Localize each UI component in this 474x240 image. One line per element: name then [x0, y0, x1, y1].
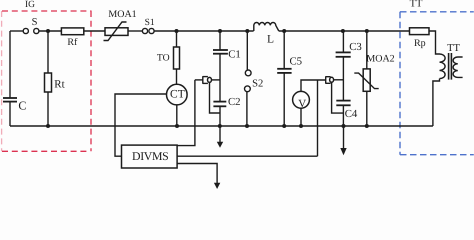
- transformer TT primary: [440, 54, 446, 79]
- capacitor C4: [336, 101, 350, 106]
- node C1 top: [218, 29, 222, 33]
- wire CT bottom: [176, 105, 178, 126]
- wire tap shield below C4: [332, 82, 344, 113]
- switch S: [23, 28, 39, 33]
- svg-text:C3: C3: [349, 41, 362, 53]
- wire C3 to C4: [342, 57, 344, 101]
- node MOA2 bottom: [365, 124, 369, 128]
- capacitor C5 branch wire: [283, 31, 285, 69]
- svg-text:TT: TT: [447, 43, 460, 54]
- capacitor C5: [277, 69, 291, 73]
- wire left branch: [9, 31, 11, 98]
- dashed box TT: [400, 12, 474, 155]
- svg-text:C: C: [18, 98, 26, 112]
- voltmeter V: [293, 91, 310, 110]
- varistor MOA1: [104, 22, 129, 41]
- capacitor C1 branch wire: [219, 31, 221, 50]
- node junction Rt top: [46, 29, 50, 33]
- node CT bottom: [175, 124, 179, 128]
- svg-text:IG: IG: [25, 0, 35, 10]
- wire CT to DIVMS: [115, 94, 167, 156]
- node S2 top: [245, 29, 249, 33]
- dashed box IG: [2, 11, 92, 151]
- capacitor C2: [213, 102, 226, 107]
- current transformer CT: [167, 84, 188, 105]
- capacitor C3 branch wire: [342, 31, 344, 52]
- capacitor C1: [213, 50, 228, 54]
- node C3 top: [341, 29, 345, 33]
- svg-text:TO: TO: [157, 52, 170, 63]
- node S2 bottom: [245, 124, 249, 128]
- wire Rf to MOA1: [84, 30, 105, 32]
- node C5 bottom: [282, 124, 286, 128]
- wire C5 to bottom rail: [283, 73, 285, 126]
- connector tap C3-C4: [326, 76, 344, 83]
- node Rt bottom: [46, 124, 50, 128]
- svg-text:L: L: [267, 33, 274, 45]
- wire C1 to C2: [219, 54, 221, 102]
- wire top rail left: [10, 30, 23, 32]
- svg-text:CT: CT: [170, 89, 185, 101]
- wire transformer primary return: [433, 79, 440, 126]
- wire top rail right: [279, 30, 410, 32]
- resistor Rp: [410, 28, 430, 35]
- box DIVMS: [122, 145, 178, 168]
- node TO top: [175, 29, 179, 33]
- node C4 bottom: [342, 124, 346, 128]
- capacitor C3: [336, 52, 351, 56]
- wire MOA1 to S1: [128, 30, 143, 32]
- wire Rp to transformer: [429, 31, 440, 54]
- wire C4 to bottom rail: [342, 105, 344, 126]
- resistor TO: [174, 31, 180, 84]
- wire V bottom: [300, 108, 302, 126]
- wire S to Rf: [39, 30, 61, 32]
- svg-text:C4: C4: [345, 108, 358, 120]
- wire C2 to bottom rail: [219, 106, 221, 126]
- wire tap to DIVMS: [177, 80, 195, 146]
- connector tap C1-C2: [195, 76, 220, 84]
- node MOA2 top: [365, 29, 369, 33]
- switch S2: [245, 31, 252, 126]
- node C2 bottom: [218, 124, 222, 128]
- svg-text:C5: C5: [289, 55, 302, 67]
- svg-text:MOA2: MOA2: [366, 53, 394, 64]
- wire top rail middle: [154, 30, 254, 32]
- wire DIVMS lower output to ground: [177, 164, 220, 190]
- svg-text:S2: S2: [252, 78, 263, 89]
- capacitor C: [3, 98, 17, 102]
- resistor Rf: [61, 28, 83, 35]
- node V bottom: [299, 124, 303, 128]
- svg-text:Rf: Rf: [67, 37, 78, 48]
- inductor L: [254, 23, 279, 32]
- transformer core: [449, 53, 452, 80]
- wire bottom rail: [10, 125, 433, 127]
- wire tap shield below C2: [210, 82, 221, 113]
- svg-text:C2: C2: [228, 96, 241, 108]
- svg-text:S: S: [32, 17, 38, 28]
- switch S1: [142, 28, 154, 33]
- svg-text:TT: TT: [410, 0, 423, 10]
- resistor Rt: [45, 31, 52, 126]
- ground arrow below C4 node: [340, 126, 346, 155]
- wire DIVMS upper output: [177, 155, 317, 157]
- transformer TT secondary: [453, 57, 463, 77]
- svg-text:Rt: Rt: [54, 78, 64, 90]
- wire C to bottom rail: [9, 102, 11, 126]
- svg-text:DIVMS: DIVMS: [132, 149, 168, 163]
- svg-text:V: V: [298, 98, 306, 110]
- varistor MOA2: [354, 31, 378, 126]
- svg-text:MOA1: MOA1: [108, 9, 136, 20]
- svg-text:C1: C1: [228, 49, 241, 61]
- node C5 top: [282, 29, 286, 33]
- ground arrow below C2 node: [217, 126, 223, 148]
- wire V top: [301, 80, 326, 91]
- wire V tap riser to DIVMS: [317, 80, 319, 156]
- svg-text:S1: S1: [145, 18, 155, 28]
- svg-text:Rp: Rp: [414, 38, 426, 49]
